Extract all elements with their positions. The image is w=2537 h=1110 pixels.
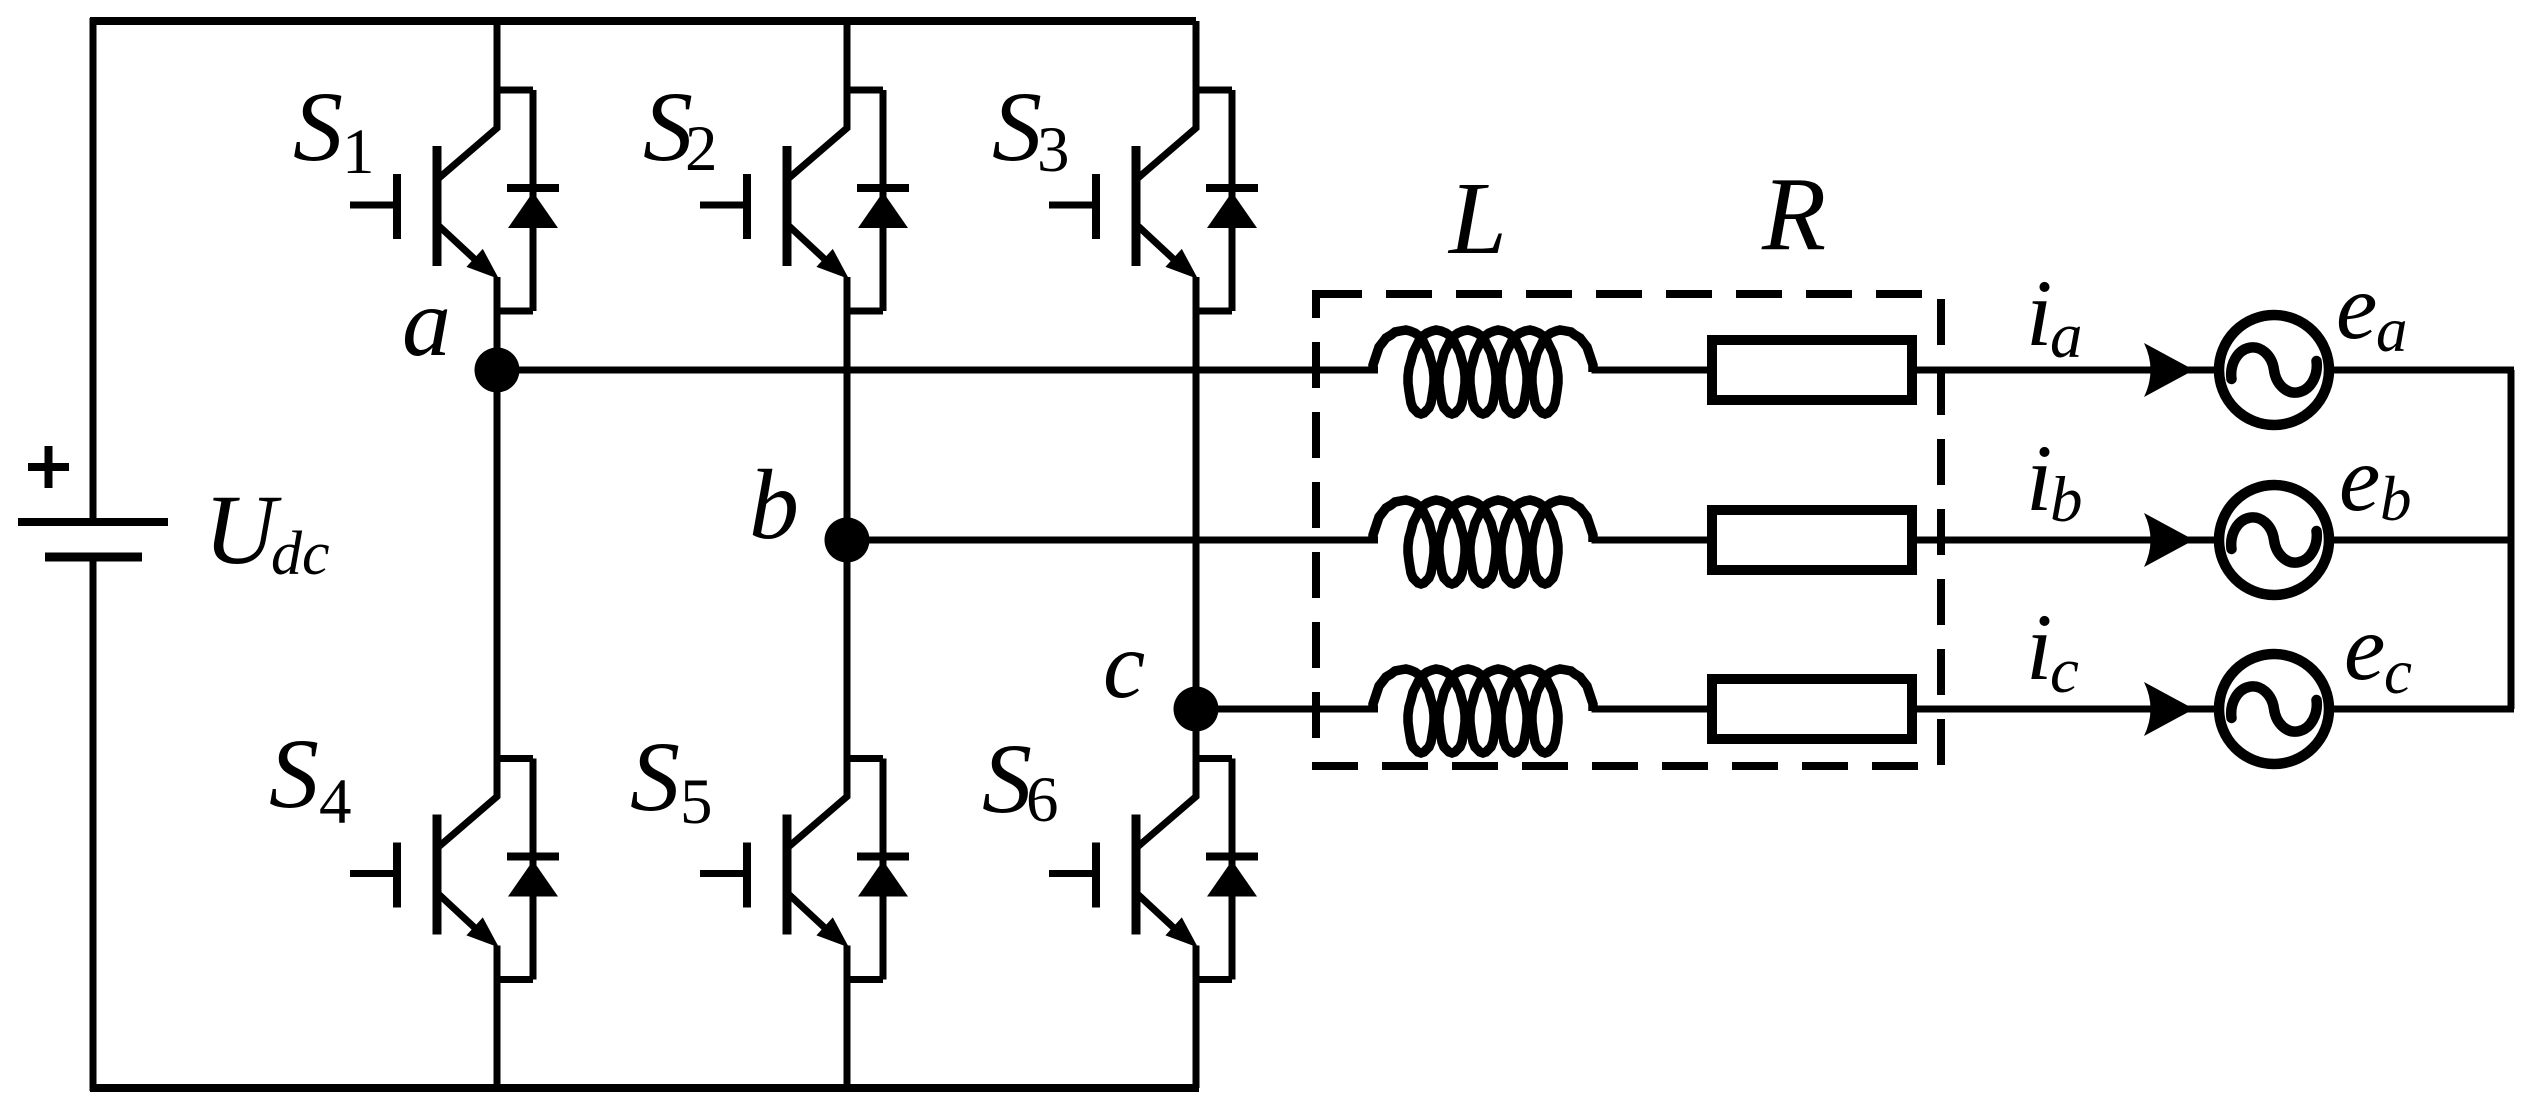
wire S4 collector from node a <box>439 370 497 847</box>
svg-text:5: 5 <box>680 766 713 838</box>
label i_a <box>2026 260 2083 372</box>
label e_c <box>2344 597 2412 707</box>
wire right bus (neutral return) <box>2508 370 2515 709</box>
wire S2 collector from top rail <box>789 21 847 178</box>
label S3 <box>992 71 1070 186</box>
current arrow i_a <box>2144 343 2194 397</box>
wire bottom DC- rail <box>90 1084 1199 1092</box>
svg-text:R: R <box>1761 155 1826 272</box>
wire top DC+ rail <box>90 17 1196 25</box>
svg-text:a: a <box>2050 300 2083 372</box>
svg-text:c: c <box>2384 637 2412 707</box>
battery U_dc negative plate <box>45 553 142 562</box>
label S5 <box>630 721 713 838</box>
inductor Lb (phase b) <box>1373 500 1593 584</box>
svg-text:S: S <box>630 721 680 832</box>
wire node c to inductor <box>1196 706 1378 713</box>
resistor Rb (phase b) <box>1712 510 1912 570</box>
AC source e_a <box>2219 315 2329 425</box>
AC source e_b <box>2219 485 2329 595</box>
wire S6 emitter to bottom rail <box>1193 946 1200 1089</box>
label e_a <box>2336 256 2408 365</box>
node c junction dot <box>1174 687 1219 732</box>
diode D1 (antiparallel with S1) <box>507 188 559 228</box>
wire antiparallel diode branch of S2 <box>847 90 883 311</box>
wire antiparallel diode branch of S3 <box>1196 90 1232 311</box>
wire S3 emitter to node c <box>1193 277 1200 709</box>
wire left DC rail (battery - side) <box>90 556 97 1091</box>
dashed box (L-R filter network) <box>1316 294 1941 766</box>
svg-text:e: e <box>2336 256 2377 359</box>
resistor Rc (phase c) <box>1712 679 1912 739</box>
label a <box>402 269 451 377</box>
wire S1 collector from top rail <box>439 21 497 178</box>
wire antiparallel diode branch of S4 <box>497 759 533 980</box>
gate of S5 <box>700 843 751 908</box>
wire S3 collector from top rail <box>1138 21 1196 178</box>
transistor S5 (IGBT body with emitter arrow) <box>787 815 849 948</box>
label i_c <box>2026 594 2079 707</box>
wire antiparallel diode branch of S6 <box>1196 759 1232 980</box>
svg-text:dc: dc <box>271 520 330 588</box>
label S2 <box>643 71 718 185</box>
transistor S2 (IGBT body with emitter arrow) <box>787 146 849 279</box>
diode D2 (antiparallel with S2) <box>857 188 909 228</box>
label e_b <box>2339 428 2412 534</box>
wire inductor Lc to resistor <box>1592 706 1713 713</box>
label R <box>1761 155 1826 272</box>
label L <box>1447 161 1507 276</box>
gate of S4 <box>350 843 401 908</box>
label S6 <box>982 723 1059 836</box>
gate of S3 <box>1049 174 1100 239</box>
node a junction dot <box>475 348 520 393</box>
svg-text:S: S <box>293 71 343 182</box>
wire source e_c to right bus <box>2334 706 2514 713</box>
wire node a to inductor <box>497 367 1378 374</box>
wire left DC rail (battery + side) <box>90 18 97 521</box>
svg-text:a: a <box>402 269 451 377</box>
svg-text:L: L <box>1447 161 1507 276</box>
svg-text:b: b <box>749 449 799 560</box>
svg-text:3: 3 <box>1037 114 1070 186</box>
svg-text:e: e <box>2339 428 2380 531</box>
battery U_dc positive plate <box>18 518 168 526</box>
svg-text:a: a <box>2376 295 2408 365</box>
plus sign <box>28 446 69 488</box>
transistor S3 (IGBT body with emitter arrow) <box>1136 146 1198 279</box>
svg-text:1: 1 <box>342 116 375 188</box>
wire S4 emitter to bottom rail <box>494 946 501 1089</box>
transistor S1 (IGBT body with emitter arrow) <box>437 146 499 279</box>
wire source e_a to right bus <box>2334 367 2514 374</box>
inductor La (phase a) <box>1373 330 1593 414</box>
svg-text:S: S <box>982 723 1032 834</box>
svg-text:i: i <box>2026 260 2052 366</box>
gate of S2 <box>700 174 751 239</box>
svg-text:c: c <box>1103 612 1145 718</box>
wire antiparallel diode branch of S5 <box>847 759 883 980</box>
label U_dc <box>204 474 330 588</box>
svg-text:4: 4 <box>319 766 352 838</box>
current arrow i_c <box>2144 682 2194 736</box>
wire inductor Lb to resistor <box>1592 537 1713 544</box>
svg-text:2: 2 <box>685 113 718 185</box>
wire S6 collector from node c <box>1138 709 1196 847</box>
wire source e_b to right bus <box>2334 537 2514 544</box>
label S1 <box>293 71 375 188</box>
svg-text:6: 6 <box>1026 764 1059 836</box>
svg-text:c: c <box>2050 635 2079 707</box>
resistor Ra (phase a) <box>1712 340 1912 400</box>
AC source e_c <box>2219 654 2329 764</box>
current arrow i_b <box>2144 513 2194 567</box>
svg-text:i: i <box>2026 594 2052 700</box>
wire antiparallel diode branch of S1 <box>497 90 533 311</box>
diode D5 (antiparallel with S5) <box>857 857 909 897</box>
wire node b to inductor <box>847 537 1378 544</box>
gate of S6 <box>1049 843 1100 908</box>
svg-text:i: i <box>2026 425 2052 531</box>
svg-text:e: e <box>2344 597 2385 700</box>
wire S5 collector from node b <box>789 540 847 847</box>
label i_b <box>2026 425 2083 536</box>
diode D6 (antiparallel with S6) <box>1206 857 1258 897</box>
diode D3 (antiparallel with S3) <box>1206 188 1258 228</box>
svg-text:b: b <box>2380 464 2412 534</box>
wire resistor Rb to source e_b <box>1917 537 2222 544</box>
wire S5 emitter to bottom rail <box>844 946 851 1089</box>
inductor Lc (phase c) <box>1373 669 1593 753</box>
wire resistor Ra to source e_a <box>1917 367 2222 374</box>
svg-text:S: S <box>269 718 319 829</box>
diode D4 (antiparallel with S4) <box>507 857 559 897</box>
svg-text:S: S <box>992 71 1042 182</box>
svg-text:b: b <box>2050 464 2083 536</box>
wire inductor La to resistor <box>1592 367 1713 374</box>
label c <box>1103 612 1145 718</box>
label b <box>749 449 799 560</box>
node b junction dot <box>825 518 870 563</box>
wire S1 emitter to node a <box>494 277 501 370</box>
wire S2 emitter to node b <box>844 277 851 540</box>
label S4 <box>269 718 352 838</box>
transistor S6 (IGBT body with emitter arrow) <box>1136 815 1198 948</box>
gate of S1 <box>350 174 401 239</box>
wire resistor Rc to source e_c <box>1917 706 2222 713</box>
transistor S4 (IGBT body with emitter arrow) <box>437 815 499 948</box>
